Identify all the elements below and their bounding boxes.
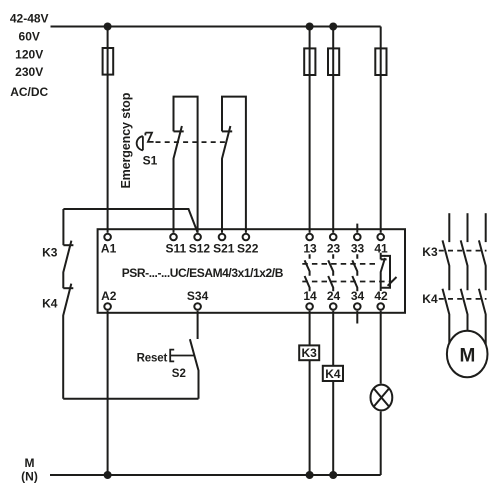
junction dot A1/bus [104,23,112,31]
junction dot 24/N [329,471,337,479]
wire lamp to N [380,411,382,475]
wire 41 column [380,27,382,233]
svg-text:Reset: Reset [137,352,168,364]
terminal S21 [219,234,226,241]
contact K3 main poles [443,240,450,290]
wire top supply bus [51,26,381,28]
wire motor phase L1 top [448,213,450,242]
svg-text:A2: A2 [101,289,117,303]
terminal S34 [194,303,201,310]
svg-text:S34: S34 [187,289,209,303]
svg-text:S21: S21 [213,241,235,255]
svg-text:S2: S2 [172,368,186,380]
relay U1 box [98,229,405,313]
wire 14 to coil K3 [309,311,311,475]
junction dot 14/N [306,471,314,479]
svg-text:PSR-...-...UC/ESAM4/3x1/1x2/B: PSR-...-...UC/ESAM4/3x1/1x2/B [122,266,284,280]
fuse F3 [328,48,339,75]
junction dot 23/bus [329,23,337,31]
wire N bus bottom [50,474,381,476]
linkage dashed contacts lower [302,281,392,283]
terminal 13 [306,234,313,241]
linkage dashed contacts upper [302,263,378,265]
svg-text:Emergency stop: Emergency stop [119,92,133,188]
actuator S1 mushroom head [137,136,143,150]
wire loop bottom [63,398,198,400]
terminal A1 [104,234,111,241]
terminal A2 [104,303,111,310]
terminal 14 [306,303,313,310]
wire A2 to N [107,311,109,475]
terminal S22 [243,234,250,241]
terminal 42 [377,303,384,310]
svg-text:33: 33 [351,241,365,255]
svg-text:34: 34 [351,289,365,303]
terminal 34 [354,303,361,310]
contact 23-24 (in box) [328,254,333,291]
fuse F2 [304,48,315,75]
wire motor phase L3 top [485,213,487,242]
svg-text:K4: K4 [42,296,58,310]
svg-text:K3: K3 [42,245,58,259]
svg-text:120V: 120V [15,47,43,61]
wire A1 column [107,27,109,233]
svg-text:42: 42 [374,289,388,303]
wire motor phase L2 top [467,213,469,242]
contact K4 main poles [443,289,450,343]
svg-text:(N): (N) [21,469,38,483]
svg-text:13: 13 [303,241,317,255]
reset button S2 [190,339,199,399]
emergency stop contact S1.1 (S11-S12) [174,97,198,233]
svg-text:24: 24 [327,289,341,303]
contact 41-42 NC (in box) [381,253,387,291]
terminal labels bottom row [101,289,388,303]
terminal 23 [330,234,337,241]
svg-text:AC/DC: AC/DC [10,85,48,99]
svg-text:14: 14 [303,289,317,303]
contact K4 NC (feedback) [63,287,73,289]
svg-text:42-48V: 42-48V [10,12,49,26]
svg-text:S11: S11 [165,241,186,255]
svg-text:230V: 230V [15,65,43,79]
junction dot 13/bus [306,23,314,31]
svg-text:K3: K3 [422,245,438,259]
wire 42 to lamp [380,311,382,384]
emergency stop contact S1.2 (S21-S22) [222,97,246,233]
svg-text:S1: S1 [143,153,158,167]
svg-text:S12: S12 [189,241,211,255]
terminal 24 [330,303,337,310]
linkage dashed S1 [156,141,228,143]
svg-text:S22: S22 [237,241,259,255]
svg-text:60V: 60V [19,29,40,43]
wire feedback loop top (to S12) [63,209,197,233]
contact K3 NC (feedback) [63,244,73,246]
wire S34 stub [197,311,199,339]
node M (N) labels [21,456,38,483]
terminal S12 [194,234,201,241]
fuse F4 [375,48,386,75]
contact 13-14 (in box) [305,254,310,291]
svg-text:23: 23 [327,241,341,255]
junction dot A2/N [104,471,112,479]
wire stub below 34 [356,311,358,324]
actuator reset bracket [170,350,194,362]
wire 23 column [332,27,334,233]
wire loop left vertical [62,209,64,245]
terminal labels top row [101,241,388,255]
contact 33-34 (in box) [352,254,357,291]
motor M [447,331,488,377]
wire 24 to coil K4 [332,311,334,475]
terminal 41 [377,234,384,241]
coil K3 [299,345,319,360]
terminal S11 [170,234,177,241]
wire 13 column [309,27,311,233]
terminal 33 [354,234,361,241]
svg-text:K3: K3 [302,346,318,360]
svg-text:A1: A1 [101,241,117,255]
svg-text:M: M [25,456,35,470]
wire stub above 33 [356,224,358,233]
fuse F1 [103,48,114,75]
svg-text:M: M [459,345,475,366]
svg-text:K4: K4 [325,367,341,381]
node supply voltage labels [10,12,49,100]
lamp H1 [371,385,393,411]
coil K4 [323,366,343,381]
svg-text:K4: K4 [422,292,438,306]
